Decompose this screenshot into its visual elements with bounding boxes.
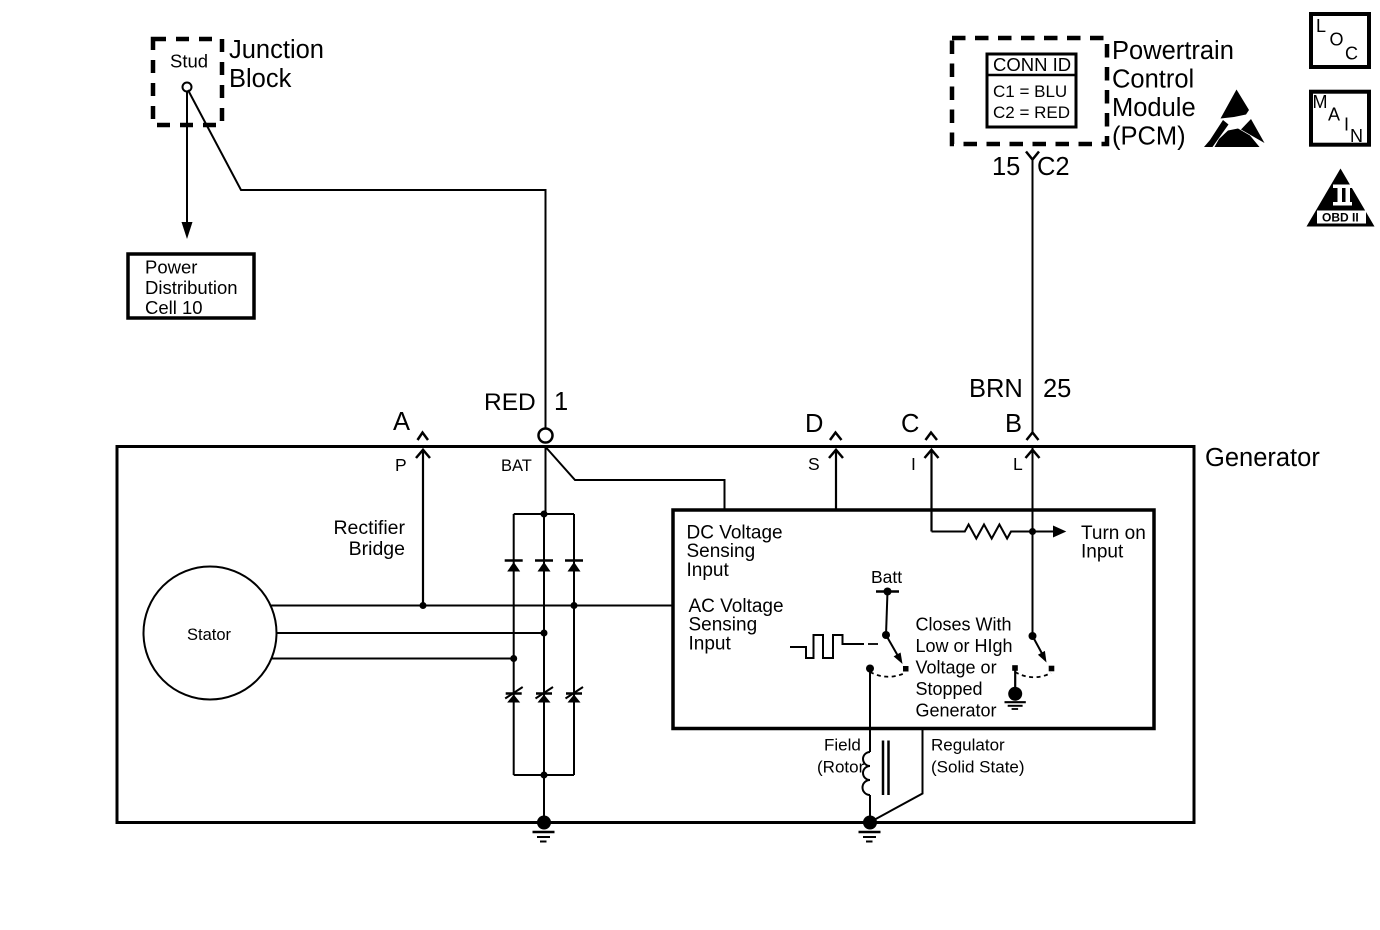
stator phase wire 3: [271, 658, 514, 660]
resistor R1: [932, 525, 1054, 539]
svg-text:M: M: [1313, 92, 1328, 112]
B wire inside generator: [1032, 447, 1034, 636]
wire PCM to B terminal: [1032, 159, 1034, 433]
svg-text:1: 1: [554, 388, 568, 416]
svg-text:D: D: [805, 410, 823, 438]
svg-text:Voltage or: Voltage or: [916, 658, 997, 678]
ground at switch: [1014, 670, 1016, 688]
svg-text:Batt: Batt: [871, 567, 902, 587]
regulator ground wire: [873, 730, 923, 821]
wire BAT to regulator (DC sensing): [547, 448, 725, 510]
OBD II icon: [1307, 169, 1375, 227]
svg-text:I: I: [1344, 115, 1349, 135]
avalanche diode D5 bottom: [536, 687, 554, 703]
svg-text:Bridge: Bridge: [349, 538, 405, 560]
pin P arrow: [416, 450, 430, 458]
batt feed bar: [876, 590, 899, 593]
svg-text:Rectifier: Rectifier: [333, 517, 405, 539]
svg-text:A: A: [1328, 105, 1340, 125]
field coil (rotor): [863, 752, 870, 795]
PCM dashed box: [952, 38, 1107, 144]
svg-text:P: P: [395, 455, 407, 475]
svg-text:Module: Module: [1112, 94, 1196, 122]
field core bars: [882, 741, 885, 796]
svg-text:C: C: [1345, 44, 1358, 64]
svg-text:N: N: [1350, 126, 1363, 146]
ESD sensitive symbol: [1204, 90, 1265, 148]
svg-text:Closes With: Closes With: [916, 615, 1012, 635]
svg-text:Generator: Generator: [916, 701, 997, 721]
avalanche diode D6 bottom: [566, 687, 584, 703]
svg-text:I: I: [911, 454, 916, 474]
svg-text:Junction: Junction: [229, 36, 324, 64]
svg-text:Powertrain: Powertrain: [1112, 37, 1234, 65]
junction dot on B wire: [1029, 528, 1036, 535]
pulse waveform: [790, 635, 864, 658]
regulator box: [673, 510, 1154, 729]
svg-text:OBD II: OBD II: [1322, 211, 1359, 225]
wire I to resistor: [930, 450, 932, 532]
svg-text:Input: Input: [689, 633, 732, 654]
diode D3 top: [565, 561, 583, 572]
svg-text:Stopped: Stopped: [916, 679, 983, 699]
svg-text:Control: Control: [1112, 66, 1194, 94]
svg-text:15: 15: [992, 153, 1020, 181]
switch SW2 (lamp): [1029, 632, 1037, 640]
svg-text:C: C: [901, 410, 919, 438]
svg-text:Cell 10: Cell 10: [145, 297, 203, 318]
svg-text:Input: Input: [1081, 542, 1124, 563]
junction dots on stator wires: [420, 602, 427, 609]
svg-text:CONN ID: CONN ID: [993, 54, 1071, 75]
wire stud to BAT terminal: [188, 90, 546, 429]
svg-text:C2: C2: [1037, 153, 1070, 181]
diode D1 top: [505, 561, 523, 572]
Power Distribution Cell 10 box: [128, 254, 254, 318]
BAT ring terminal: [539, 429, 553, 443]
pin S arrow: [829, 450, 843, 458]
arrow stud to power distribution: [186, 92, 188, 225]
svg-text:L: L: [1013, 454, 1023, 474]
svg-text:BRN: BRN: [969, 375, 1023, 403]
pin L arrow: [1026, 450, 1040, 458]
junction block (dashed box): [153, 39, 222, 125]
svg-text:Power: Power: [145, 257, 197, 278]
diode D2 top: [535, 561, 553, 572]
svg-text:BAT: BAT: [501, 457, 532, 475]
svg-text:Input: Input: [687, 560, 730, 581]
svg-text:(Solid State): (Solid State): [931, 758, 1025, 777]
svg-text:25: 25: [1043, 375, 1071, 403]
svg-text:(PCM): (PCM): [1112, 123, 1186, 151]
svg-text:Distribution: Distribution: [145, 277, 238, 298]
svg-text:RED: RED: [484, 389, 536, 416]
stator phase wire 2: [276, 632, 544, 634]
stud terminal circle: [183, 83, 192, 92]
svg-text:Block: Block: [229, 65, 292, 93]
switch SW1 (batt): [882, 631, 890, 639]
avalanche diode D4 bottom: [505, 687, 523, 703]
svg-text:Generator: Generator: [1205, 444, 1320, 472]
svg-text:S: S: [808, 454, 820, 474]
svg-text:Low or HIgh: Low or HIgh: [916, 636, 1013, 656]
svg-text:Regulator: Regulator: [931, 736, 1005, 755]
svg-text:A: A: [393, 408, 410, 436]
wire switch to field: [869, 669, 871, 753]
ground at field: [863, 816, 877, 830]
pin I arrow: [925, 450, 939, 458]
svg-text:O: O: [1330, 30, 1344, 50]
svg-text:Stud: Stud: [170, 51, 208, 72]
stator: [144, 567, 277, 700]
generator box: [117, 447, 1194, 823]
wire BAT down: [545, 447, 547, 514]
MAIN icon: [1311, 92, 1369, 145]
svg-text:L: L: [1316, 16, 1326, 36]
rectifier bridge rails: [514, 513, 574, 515]
svg-text:C1 = BLU: C1 = BLU: [993, 82, 1067, 101]
turn-on arrow: [1053, 526, 1066, 538]
ground at rectifier: [537, 816, 551, 830]
LOC icon: [1311, 14, 1369, 67]
svg-text:B: B: [1005, 410, 1022, 438]
svg-text:Field: Field: [824, 736, 861, 755]
svg-text:C2 = RED: C2 = RED: [993, 103, 1070, 122]
svg-text:Stator: Stator: [187, 626, 232, 644]
svg-text:(Rotor: (Rotor: [817, 758, 865, 777]
stator phase wire 1: [270, 605, 673, 607]
CONN ID table: [987, 54, 1076, 127]
